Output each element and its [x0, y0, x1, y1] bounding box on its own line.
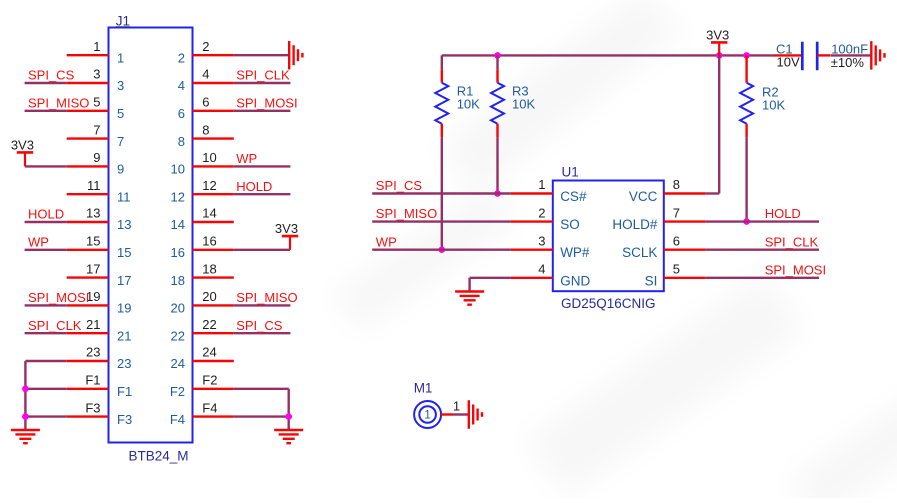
- svg-text:7: 7: [673, 205, 680, 220]
- svg-text:1: 1: [93, 39, 100, 54]
- svg-text:U1: U1: [562, 164, 579, 179]
- svg-text:11: 11: [87, 178, 101, 193]
- svg-text:J1: J1: [116, 13, 130, 28]
- svg-text:WP: WP: [236, 151, 257, 166]
- svg-text:±10%: ±10%: [831, 55, 865, 70]
- svg-text:SI: SI: [645, 273, 658, 288]
- svg-text:HOLD: HOLD: [236, 179, 272, 194]
- svg-text:2: 2: [178, 50, 185, 65]
- svg-text:10: 10: [171, 162, 185, 177]
- svg-text:24: 24: [171, 356, 185, 371]
- svg-text:WP#: WP#: [560, 245, 590, 260]
- svg-text:SPI_CS: SPI_CS: [236, 318, 283, 333]
- svg-text:BTB24_M: BTB24_M: [128, 449, 188, 464]
- svg-text:F1: F1: [85, 373, 100, 388]
- svg-text:13: 13: [86, 206, 100, 221]
- svg-text:HOLD: HOLD: [28, 207, 64, 222]
- svg-text:15: 15: [117, 245, 131, 260]
- svg-text:SPI_MOSI: SPI_MOSI: [236, 95, 297, 110]
- svg-text:SPI_CS: SPI_CS: [28, 68, 75, 83]
- svg-text:21: 21: [86, 317, 100, 332]
- svg-text:GD25Q16CNIG: GD25Q16CNIG: [561, 296, 656, 311]
- svg-text:20: 20: [202, 289, 216, 304]
- svg-text:SPI_MISO: SPI_MISO: [28, 95, 89, 110]
- svg-text:18: 18: [171, 273, 185, 288]
- svg-text:F1: F1: [117, 384, 132, 399]
- svg-text:12: 12: [171, 189, 185, 204]
- svg-text:3V3: 3V3: [11, 137, 34, 152]
- svg-text:16: 16: [202, 234, 216, 249]
- svg-text:8: 8: [202, 122, 209, 137]
- svg-text:11: 11: [117, 189, 131, 204]
- svg-text:3: 3: [117, 78, 124, 93]
- svg-text:10K: 10K: [512, 97, 535, 112]
- svg-text:2: 2: [202, 39, 209, 54]
- svg-text:19: 19: [117, 301, 131, 316]
- svg-text:SPI_CLK: SPI_CLK: [765, 234, 819, 249]
- svg-text:SO: SO: [560, 217, 580, 232]
- svg-text:12: 12: [202, 178, 216, 193]
- svg-text:CS#: CS#: [560, 189, 587, 204]
- svg-text:8: 8: [673, 177, 680, 192]
- svg-text:2: 2: [538, 205, 545, 220]
- svg-text:7: 7: [117, 134, 124, 149]
- svg-text:SPI_CLK: SPI_CLK: [236, 68, 290, 83]
- svg-text:6: 6: [178, 106, 185, 121]
- svg-text:M1: M1: [414, 381, 433, 396]
- svg-text:1: 1: [453, 398, 460, 413]
- svg-text:7: 7: [93, 122, 100, 137]
- svg-text:SPI_MISO: SPI_MISO: [376, 206, 437, 221]
- svg-text:10K: 10K: [762, 98, 785, 113]
- svg-text:HOLD: HOLD: [765, 206, 801, 221]
- svg-text:SPI_MOSI: SPI_MOSI: [28, 290, 89, 305]
- svg-text:SPI_CS: SPI_CS: [376, 178, 423, 193]
- svg-text:SPI_CLK: SPI_CLK: [28, 318, 82, 333]
- svg-text:F2: F2: [170, 384, 185, 399]
- svg-text:SCLK: SCLK: [622, 245, 657, 260]
- svg-text:3V3: 3V3: [275, 221, 298, 236]
- svg-text:13: 13: [117, 217, 131, 232]
- svg-text:4: 4: [202, 67, 209, 82]
- svg-text:F2: F2: [202, 373, 217, 388]
- svg-text:F3: F3: [85, 400, 100, 415]
- svg-text:3: 3: [538, 233, 545, 248]
- svg-text:8: 8: [178, 134, 185, 149]
- svg-text:5: 5: [117, 106, 124, 121]
- svg-text:F4: F4: [170, 412, 185, 427]
- svg-text:GND: GND: [560, 273, 590, 288]
- svg-text:24: 24: [202, 345, 216, 360]
- svg-text:5: 5: [93, 95, 100, 110]
- svg-text:17: 17: [86, 261, 100, 276]
- svg-text:4: 4: [178, 78, 185, 93]
- svg-text:21: 21: [117, 328, 131, 343]
- svg-text:22: 22: [171, 328, 185, 343]
- svg-text:WP: WP: [376, 234, 397, 249]
- svg-text:4: 4: [538, 262, 545, 277]
- svg-text:F3: F3: [117, 412, 132, 427]
- svg-text:18: 18: [202, 261, 216, 276]
- svg-text:3V3: 3V3: [706, 27, 729, 42]
- svg-text:WP: WP: [28, 234, 49, 249]
- svg-text:3: 3: [93, 67, 100, 82]
- svg-text:6: 6: [202, 95, 209, 110]
- svg-text:16: 16: [171, 245, 185, 260]
- svg-text:9: 9: [93, 150, 100, 165]
- svg-text:23: 23: [86, 345, 100, 360]
- svg-text:10: 10: [202, 150, 216, 165]
- svg-text:20: 20: [171, 301, 185, 316]
- svg-text:14: 14: [202, 206, 216, 221]
- svg-text:9: 9: [117, 162, 124, 177]
- svg-text:6: 6: [673, 233, 680, 248]
- svg-text:5: 5: [673, 262, 680, 277]
- svg-text:VCC: VCC: [629, 189, 658, 204]
- svg-text:14: 14: [171, 217, 185, 232]
- svg-text:10V: 10V: [777, 55, 800, 70]
- svg-text:SPI_MISO: SPI_MISO: [236, 290, 297, 305]
- svg-text:15: 15: [86, 234, 100, 249]
- svg-text:10K: 10K: [457, 97, 480, 112]
- svg-text:17: 17: [117, 273, 131, 288]
- svg-text:HOLD#: HOLD#: [612, 217, 658, 232]
- svg-text:1: 1: [117, 50, 124, 65]
- svg-text:23: 23: [117, 356, 131, 371]
- svg-text:22: 22: [202, 317, 216, 332]
- svg-text:F4: F4: [202, 400, 217, 415]
- svg-text:1: 1: [424, 410, 430, 422]
- svg-text:SPI_MOSI: SPI_MOSI: [765, 262, 826, 277]
- svg-text:1: 1: [538, 177, 545, 192]
